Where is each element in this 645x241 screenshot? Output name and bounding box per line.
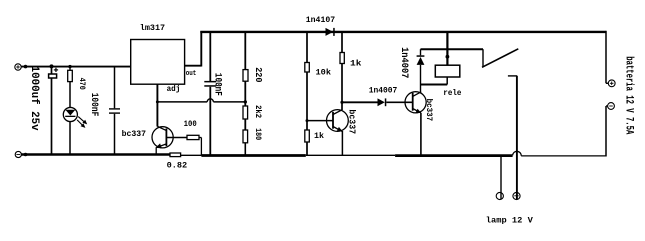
- svg-text:bc337: bc337: [122, 130, 147, 139]
- transistor Q2 collector segment: [333, 110, 342, 115]
- LED D1 lead bottom: [69, 122, 71, 155]
- svg-text:10k: 10k: [316, 69, 332, 78]
- relay RL1 coil box: [435, 65, 460, 77]
- capacitor C1 plus mark: [54, 68, 58, 72]
- LED D1 triangle: [65, 110, 75, 116]
- capacitor C3 lead bottom: [209, 87, 211, 155]
- transistor Q3 collector segment: [413, 92, 422, 97]
- transistor Q2 emitter lead: [341, 131, 343, 155]
- transistor Q3 emitter lead: [420, 113, 422, 156]
- relay switch blade: [482, 49, 518, 68]
- wire adj vertical: [156, 84, 158, 126]
- resistor 2k2 body: [243, 106, 248, 119]
- wire 1k column to collector: [341, 64, 343, 111]
- transistor Q1 emitter lead: [155, 147, 157, 154]
- capacitor C3 100nF lead top: [209, 32, 211, 81]
- wire Q3 collector lead: [420, 85, 422, 93]
- diode D4 ln4007 flyback: [417, 49, 425, 84]
- wire battery minus drop: [606, 106, 608, 157]
- lamp terminal 2: [513, 192, 520, 199]
- regulator U1 lm317 box: [131, 40, 185, 85]
- transistor Q3 bc337 circle: [405, 92, 426, 113]
- junction dot D: [24, 153, 28, 157]
- wire divider column mid2: [244, 119, 246, 130]
- svg-text:100nF: 100nF: [212, 73, 224, 96]
- wire Q2 base: [307, 120, 333, 122]
- capacitor C2 100nF lead top: [114, 67, 116, 109]
- svg-text:1n4107: 1n4107: [306, 16, 335, 25]
- wire 1k column top: [341, 32, 343, 53]
- resistor 1k base body: [305, 130, 310, 142]
- capacitor C2 plate bottom: [109, 112, 120, 113]
- capacitor C3 plate bottom: [204, 85, 216, 87]
- junction blob coil lead: [446, 55, 450, 59]
- svg-text:rele: rele: [443, 89, 461, 98]
- svg-text:2k2: 2k2: [253, 105, 263, 118]
- svg-text:out: out: [186, 70, 197, 78]
- transistor Q1 base wire: [166, 137, 187, 139]
- capacitor C1 1000uf lead top: [51, 67, 53, 74]
- capacitor C1 1000uf body: [49, 74, 57, 78]
- lamp terminal 1: [496, 192, 503, 199]
- wire diode to Q3 base: [386, 101, 412, 103]
- resistor 470 lead bottom: [69, 82, 71, 108]
- junction dot A: [24, 65, 28, 69]
- wire relay contact feed: [421, 48, 484, 50]
- capacitor C2 lead bottom: [114, 114, 116, 155]
- svg-text:lm317: lm317: [140, 24, 165, 33]
- resistor 1k body: [340, 53, 344, 64]
- wire bottom rail right: [521, 155, 606, 157]
- svg-text:180: 180: [253, 128, 263, 140]
- wire bottom rail mid thin: [181, 154, 202, 156]
- battery terminal plus: [608, 80, 615, 87]
- resistor 180 body: [243, 130, 248, 143]
- svg-text:1n4007: 1n4007: [398, 47, 410, 78]
- battery terminal minus: [608, 103, 615, 110]
- svg-text:1k: 1k: [350, 60, 362, 69]
- terminal input -: [15, 151, 21, 157]
- junction dot base divider: [306, 119, 309, 122]
- transistor Q2 bc337 circle: [327, 110, 349, 132]
- junction dot collector node: [340, 101, 343, 104]
- svg-text:0.82: 0.82: [167, 162, 188, 171]
- wire divider column bottom: [244, 143, 246, 156]
- LED D1 arrow 1: [78, 117, 87, 125]
- diode D3 ln4007: [378, 98, 387, 106]
- svg-text:bc337: bc337: [424, 99, 434, 122]
- wire divider column top: [244, 32, 246, 70]
- svg-text:220: 220: [253, 67, 263, 82]
- transistor Q1 emitter segment: [155, 143, 166, 148]
- wire divider column mid1: [244, 81, 246, 106]
- capacitor C2 plate top: [109, 108, 120, 109]
- transistor Q1 bc337 circle: [152, 127, 173, 148]
- wire 100 to rail: [199, 138, 201, 156]
- svg-text:1n4007: 1n4007: [369, 86, 398, 95]
- terminal input +: [15, 64, 21, 70]
- resistor 0.82 body: [170, 153, 181, 157]
- svg-text:100nF: 100nF: [88, 93, 99, 117]
- resistor 470 lead top: [69, 67, 71, 71]
- wire coil bottom lead: [446, 77, 448, 85]
- LED D1 cathode bar: [65, 116, 75, 117]
- svg-text:470: 470: [77, 78, 87, 90]
- resistor 470 body: [68, 70, 73, 81]
- svg-text:1000uf 25v: 1000uf 25v: [28, 66, 40, 131]
- transistor Q2 emitter segment: [333, 127, 343, 132]
- wire 1k base column bottom: [306, 142, 308, 156]
- transistor Q1 base bar: [165, 129, 167, 147]
- junction dot divider: [244, 100, 247, 103]
- junction dot B: [50, 64, 54, 68]
- wire bottom rail hop: [513, 151, 522, 155]
- resistor 220 body: [243, 70, 248, 82]
- transistor Q3 emitter segment: [413, 109, 422, 114]
- transistor Q3 base bar: [412, 93, 414, 111]
- wire top rail: [200, 31, 606, 33]
- wire input top: [21, 66, 131, 68]
- diode D2 ln4107: [326, 28, 335, 36]
- wire bottom rail left: [21, 153, 170, 155]
- svg-text:100: 100: [184, 120, 197, 129]
- capacitor C1 lead bottom: [51, 78, 53, 155]
- wire adj horizontal with hop: [157, 99, 245, 102]
- LED D1 arrow 2: [77, 120, 85, 128]
- junction dot adj: [156, 100, 159, 103]
- wire collector to diode: [342, 101, 378, 103]
- wire contact drop: [482, 49, 484, 67]
- relay lower contact: [508, 75, 517, 77]
- wire coil top lead: [446, 32, 448, 65]
- wire out vertical: [200, 31, 202, 67]
- wire 10k column top: [306, 32, 308, 63]
- wire battery plus drop: [606, 31, 608, 83]
- wire bottom rail mid thick: [395, 154, 512, 157]
- LED D1 circle: [63, 107, 77, 121]
- svg-text:bc337: bc337: [346, 109, 357, 134]
- wire out horizontal: [185, 65, 202, 67]
- capacitor C3 plate top: [204, 81, 216, 83]
- wire lamp lead 1: [500, 155, 502, 199]
- wire coil bottom: [421, 84, 448, 86]
- svg-text:batteria 12 V 7.5A: batteria 12 V 7.5A: [622, 56, 634, 134]
- svg-text:1k: 1k: [314, 132, 324, 141]
- svg-text:lamp 12 V: lamp 12 V: [486, 217, 533, 226]
- transistor Q1 collector segment: [157, 126, 166, 130]
- wire lamp lead 2: [516, 76, 518, 199]
- svg-text:adj: adj: [167, 85, 181, 94]
- wire 10k column mid: [306, 72, 308, 130]
- transistor Q2 base bar: [332, 112, 334, 129]
- junction dot C: [68, 65, 71, 68]
- resistor 10k body: [305, 63, 310, 73]
- resistor 100 body: [187, 135, 199, 139]
